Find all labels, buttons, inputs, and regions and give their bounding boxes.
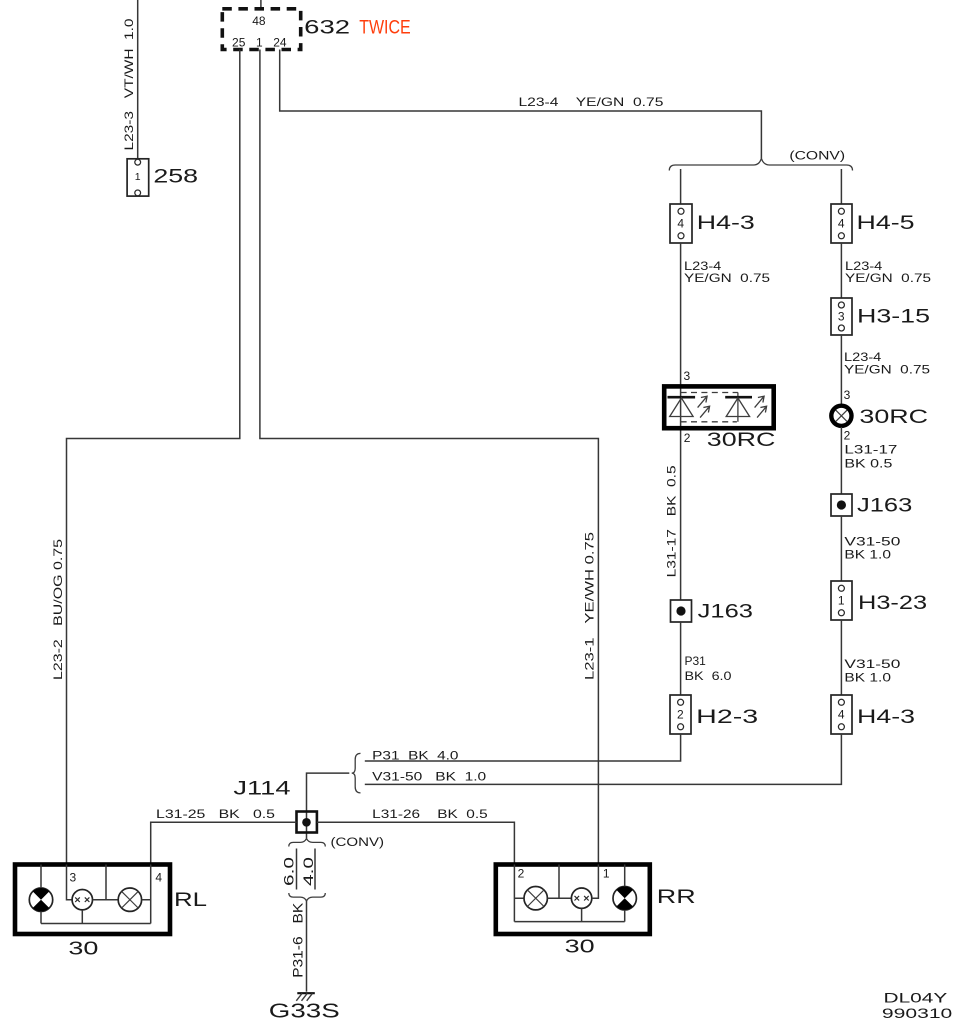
- svg-text:V31-50: V31-50: [844, 657, 900, 671]
- svg-text:BK 6.0: BK 6.0: [685, 669, 732, 683]
- lamp unit RR: [496, 865, 696, 957]
- svg-text:3: 3: [838, 310, 845, 324]
- svg-text:BK 1.0: BK 1.0: [844, 670, 891, 684]
- svg-text:3: 3: [70, 870, 77, 884]
- LED D1: [668, 396, 696, 399]
- svg-text:(CONV): (CONV): [331, 837, 385, 849]
- svg-text:4: 4: [155, 870, 162, 884]
- svg-text:BK 0.5: BK 0.5: [844, 456, 892, 470]
- lamp RR reverse (x): [524, 887, 547, 910]
- svg-text:YE/GN 0.75: YE/GN 0.75: [844, 363, 930, 377]
- splice J163: [671, 600, 754, 622]
- svg-text:DL04Y: DL04Y: [884, 990, 949, 1006]
- connector H3-23: [831, 581, 927, 620]
- lamp RL turn indicator (xx): [72, 890, 92, 910]
- svg-text:1: 1: [135, 171, 141, 183]
- lamp RL tail (quadrant): [29, 888, 52, 911]
- svg-text:L23-4 YE/GN 0.75: L23-4 YE/GN 0.75: [519, 95, 664, 109]
- svg-text:L31-25 BK 0.5: L31-25 BK 0.5: [156, 807, 275, 821]
- wire bottom bus: [514, 921, 624, 923]
- wire L31-26 from J114 to RR pin2: [317, 822, 515, 864]
- svg-text:YE/GN 0.75: YE/GN 0.75: [684, 271, 770, 285]
- svg-text:BK 1.0: BK 1.0: [844, 548, 891, 562]
- wire H3-15 to lamp 30RC: [840, 335, 842, 405]
- wire to connector 258: [137, 0, 139, 160]
- lamp unit 30RC (LED module): [664, 386, 775, 451]
- svg-text:3: 3: [684, 369, 691, 383]
- wire lamp3 to pin4: [142, 865, 151, 924]
- connector H4-3: [831, 695, 915, 734]
- wire H3-23 to H4-3: [840, 620, 842, 695]
- svg-text:V31-50 BK 1.0: V31-50 BK 1.0: [372, 769, 486, 783]
- splice J114: [297, 812, 317, 833]
- wire xx lamp bottom: [81, 910, 83, 924]
- svg-text:30RC: 30RC: [859, 407, 928, 428]
- wire mid tap: [93, 865, 119, 900]
- svg-text:P31: P31: [685, 654, 707, 668]
- wire pin1 to xx lamp: [592, 865, 599, 899]
- svg-text:1: 1: [838, 594, 845, 608]
- wire xx lamp bottom: [581, 908, 583, 921]
- wire pin3 to lamp: [67, 865, 73, 900]
- splice J163: [831, 494, 912, 516]
- wire lamp to J163: [840, 427, 842, 494]
- wire J163 to H3-23: [840, 516, 842, 581]
- wire quadrant lamp stubs: [624, 865, 626, 922]
- wire to ground: [306, 901, 308, 992]
- ground G33S: [269, 993, 340, 1022]
- svg-text:2: 2: [844, 428, 851, 442]
- svg-text:H3-15: H3-15: [857, 307, 930, 328]
- wire L31-25 from RL pin4 to J114: [151, 822, 297, 864]
- svg-text:30RC: 30RC: [707, 430, 776, 451]
- svg-text:H4-3: H4-3: [697, 213, 755, 234]
- svg-text:(CONV): (CONV): [789, 151, 845, 163]
- svg-text:632: 632: [304, 17, 350, 38]
- svg-text:30: 30: [68, 938, 98, 958]
- svg-text:L31-17: L31-17: [844, 443, 897, 457]
- wire bracket to H4-3: [680, 169, 682, 204]
- connector H4-3: [670, 204, 755, 243]
- svg-text:24: 24: [273, 35, 287, 49]
- svg-text:25: 25: [232, 35, 246, 49]
- LED D2: [725, 396, 752, 399]
- svg-text:H3-23: H3-23: [858, 593, 927, 614]
- lamp RR tail (quadrant): [613, 887, 636, 910]
- wire right branch to H4-5: [840, 169, 842, 204]
- wire pin2 down: [514, 865, 525, 922]
- lamp 30RC: [831, 406, 928, 428]
- svg-text:48: 48: [252, 14, 266, 28]
- svg-text:RL: RL: [174, 890, 207, 911]
- (CONV) split bracket: [669, 158, 852, 170]
- wire from pin 25 to RL pin 3: [67, 50, 240, 865]
- wire bottom bus: [41, 923, 151, 925]
- wire J114 up to brace: [307, 773, 350, 838]
- svg-text:4.0: 4.0: [301, 857, 316, 886]
- connector H4-5: [831, 204, 915, 243]
- svg-text:258: 258: [153, 167, 198, 188]
- svg-text:H4-5: H4-5: [857, 213, 915, 234]
- control unit 632 TWICE (dashed box): [222, 9, 410, 50]
- wire H4-3 to 30RC lamps: [680, 243, 682, 600]
- svg-text:J114: J114: [233, 779, 291, 800]
- svg-text:P31-6 BK: P31-6 BK: [291, 903, 306, 978]
- svg-text:J163: J163: [698, 601, 753, 622]
- svg-text:H2-3: H2-3: [696, 707, 758, 728]
- svg-text:L23-3 VT/WH 1.0: L23-3 VT/WH 1.0: [122, 18, 136, 150]
- svg-text:2: 2: [518, 867, 525, 881]
- svg-text:2: 2: [684, 431, 691, 445]
- svg-text:RR: RR: [657, 887, 696, 908]
- connector H3-15: [831, 298, 930, 335]
- brace grouping P31/V31-50 lines: [352, 753, 361, 793]
- svg-text:L31-17 BK 0.5: L31-17 BK 0.5: [665, 465, 679, 577]
- wire into TWICE pin 48: [260, 0, 262, 9]
- svg-text:L31-26 BK 0.5: L31-26 BK 0.5: [372, 807, 488, 821]
- svg-text:J163: J163: [857, 495, 912, 516]
- wire H2-3 down to P31 line: [365, 734, 681, 761]
- wire mid tap: [547, 865, 571, 899]
- svg-text:6.0: 6.0: [282, 857, 297, 886]
- svg-text:4: 4: [677, 217, 684, 231]
- lamp RR turn indicator (xx): [571, 888, 591, 908]
- svg-text:30: 30: [565, 937, 595, 957]
- svg-text:1: 1: [603, 867, 610, 881]
- svg-text:4: 4: [838, 708, 845, 722]
- lamp unit RL: [15, 865, 207, 959]
- svg-text:L23-1 YE/WH 0.75: L23-1 YE/WH 0.75: [583, 532, 597, 680]
- svg-text:TWICE: TWICE: [359, 17, 411, 38]
- svg-text:990310: 990310: [882, 1005, 953, 1021]
- wire H4-3 down to V31-50 line: [365, 734, 842, 784]
- svg-text:1: 1: [256, 35, 263, 49]
- wire quadrant lamp stubs: [40, 865, 42, 924]
- wire J163 to H2-3: [680, 622, 682, 695]
- merge bracket: [289, 893, 326, 901]
- svg-text:G33S: G33S: [269, 1000, 340, 1022]
- svg-text:L23-2 BU/OG 0.75: L23-2 BU/OG 0.75: [51, 539, 65, 680]
- svg-text:V31-50: V31-50: [844, 535, 900, 549]
- lamp RL reverse (x): [118, 888, 141, 911]
- svg-text:P31 BK 4.0: P31 BK 4.0: [372, 748, 459, 762]
- wire H4-5 to H3-15: [840, 243, 842, 298]
- svg-text:H4-3: H4-3: [857, 707, 915, 728]
- svg-text:3: 3: [844, 388, 851, 402]
- wire from pin 24 over to right column: [280, 50, 762, 159]
- connector 258: [127, 159, 198, 196]
- svg-text:4: 4: [838, 217, 845, 231]
- svg-text:2: 2: [677, 708, 684, 722]
- svg-text:YE/GN 0.75: YE/GN 0.75: [845, 271, 931, 285]
- wire from pin 1 to RR pin 1: [260, 50, 599, 865]
- (CONV) bracket under J114: [289, 839, 326, 847]
- wire 4.0 branch: [314, 849, 316, 890]
- wire 6.0 branch: [296, 849, 298, 890]
- connector H2-3: [670, 695, 758, 734]
